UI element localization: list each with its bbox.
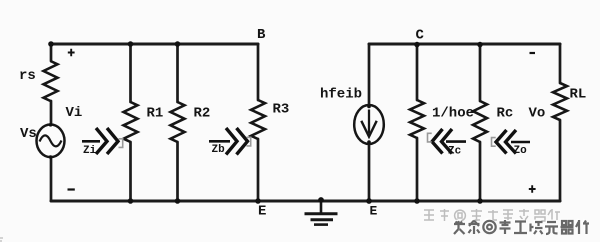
svg-text:Rc: Rc (497, 106, 514, 122)
svg-text:Vi: Vi (66, 105, 83, 121)
resistor RL (553, 83, 567, 120)
label minus Vi (68, 188, 75, 190)
wire RL branch segments (559, 44, 562, 201)
svg-text:Vo: Vo (529, 106, 546, 122)
current source hfeib (354, 105, 384, 144)
resistor R3 (251, 100, 265, 139)
svg-text:B: B (257, 27, 266, 43)
label minus Vo (530, 52, 536, 54)
label plus Vi (68, 49, 75, 56)
label plus Vo (529, 185, 536, 192)
svg-text:1/hoe: 1/hoe (432, 106, 474, 122)
svg-text:C: C (416, 28, 425, 44)
resistor 1/hoe (410, 100, 424, 138)
wire top rail left section B (51, 43, 258, 46)
watermark corner sliver (0, 238, 3, 241)
wire hfeib branch segments (368, 44, 371, 201)
impedance arrow Zi (82, 128, 123, 157)
wire R2 branch segments (176, 44, 179, 201)
watermark toutiao line highlight (453, 219, 588, 233)
node junction dots bottom rail (128, 198, 134, 204)
wire bottom rail E (51, 200, 560, 203)
svg-text:E: E (258, 204, 266, 220)
svg-text:R2: R2 (194, 106, 211, 122)
svg-text:rs: rs (19, 68, 36, 84)
svg-text:RL: RL (570, 87, 587, 103)
svg-text:Zc: Zc (448, 146, 461, 158)
voltage source Vs (37, 125, 65, 158)
impedance arrow Zb (209, 128, 251, 156)
svg-text:Zo: Zo (514, 145, 528, 157)
svg-text:Vs: Vs (20, 126, 37, 142)
resistor rs (44, 61, 58, 101)
resistor Rc (473, 101, 487, 142)
wire Rc branch segments (479, 44, 482, 201)
watermark zhihu line (424, 209, 560, 221)
wire top rail right section C (369, 43, 560, 46)
resistor R1 (124, 102, 138, 142)
node junction dots top rail (48, 41, 54, 47)
impedance arrow Zc (428, 129, 467, 158)
resistor R2 (171, 102, 185, 142)
wire Vs-rs branch segments (50, 44, 53, 201)
svg-text:Zi: Zi (83, 145, 97, 157)
wire R1 branch segments (129, 44, 132, 201)
watermark toutiao line (454, 220, 589, 234)
node pin dots on sources (49, 123, 53, 127)
impedance arrow Zo (492, 130, 531, 157)
svg-text:E: E (370, 204, 378, 219)
svg-text:hfeib: hfeib (320, 87, 362, 103)
svg-text:R1: R1 (147, 106, 164, 122)
ground (305, 201, 338, 225)
svg-text:R3: R3 (273, 102, 290, 118)
svg-text:Zb: Zb (212, 144, 226, 156)
wire 1/hoe branch segments (416, 44, 419, 201)
wire R3 branch segments (257, 44, 260, 201)
